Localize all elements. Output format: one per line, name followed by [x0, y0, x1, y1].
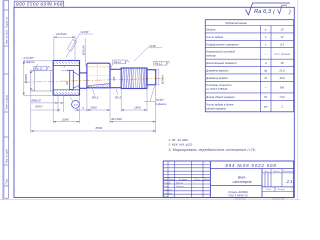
segment F (gear teeth section)	[121, 68, 147, 89]
svg-text:15,6: 15,6	[279, 76, 285, 80]
svg-text:): )	[288, 10, 291, 16]
B inner groove rect	[70, 70, 79, 89]
F teeth section: dense wavy strokes	[123, 68, 146, 88]
svg-text:Ø15,94: Ø15,94	[81, 45, 85, 56]
dim d15.94 vertical	[84, 38, 86, 67]
left vertical dim A (on face)	[30, 70, 32, 73]
svg-text:Масса: Масса	[273, 171, 280, 173]
centerline	[24, 78, 163, 82]
D keyway section hatch (sloped)	[88, 84, 110, 88]
svg-text:Число зубьев в длине: Число зубьев в длине	[206, 102, 234, 106]
svg-text:по ГОСТ 1758-81: по ГОСТ 1758-81	[206, 87, 228, 91]
B hatching top band	[54, 61, 79, 65]
title block	[163, 161, 293, 198]
svg-text:Ø2: Ø2	[65, 80, 69, 85]
svg-text:≈150: ≈150	[149, 44, 156, 48]
left section horizontals	[163, 163, 210, 165]
roughness mark top right	[246, 3, 292, 16]
svg-text:Разраб.: Разраб.	[164, 183, 172, 185]
svg-text:Модуль: Модуль	[206, 28, 216, 32]
svg-text:da: da	[264, 68, 267, 72]
svg-text:W: W	[264, 95, 267, 99]
svg-text:1:7: 1:7	[73, 103, 78, 107]
svg-text:3. Маркировать передаточное от: 3. Маркировать передаточное отношение i=…	[169, 148, 257, 152]
svg-text:68h6: 68h6	[96, 126, 103, 130]
svg-text:Делительный диаметр: Делительный диаметр	[205, 61, 237, 65]
svg-text:7,21: 7,21	[279, 95, 285, 99]
extension lines down	[31, 85, 156, 133]
svg-text:Т.контр.: Т.контр.	[164, 189, 173, 191]
balloon	[72, 101, 80, 109]
svg-text:Ra 6,3: Ra 6,3	[254, 9, 272, 15]
leader 1250	[66, 34, 93, 58]
svg-text:≈1250: ≈1250	[80, 30, 89, 34]
segment G (right journal)	[147, 70, 156, 85]
left vertical dim B	[24, 61, 53, 96]
svg-text:Утв.: Утв.	[164, 196, 169, 198]
svg-text:18: 18	[281, 61, 284, 65]
svg-text:Ra 12: Ra 12	[155, 62, 162, 66]
gear parameter table	[205, 20, 293, 112]
svg-text:ГОСТ 4543-71: ГОСТ 4543-71	[228, 194, 248, 198]
top-left designation box (rotated 180)	[14, 1, 64, 8]
svg-text:R0,5: R0,5	[92, 95, 99, 99]
segment D (cylinder with keyway section)	[87, 63, 110, 88]
svg-text:2. H14, h14, ±t2/2.: 2. H14, h14, ±t2/2.	[168, 143, 194, 147]
svg-text:Формат A4: Формат A4	[272, 198, 285, 200]
svg-text:85h7: 85h7	[36, 105, 43, 109]
svg-text:Ra 12: Ra 12	[35, 67, 43, 71]
title block texts	[225, 163, 292, 197]
svg-text:df: df	[265, 76, 267, 80]
svg-text:Подп.: Подп.	[194, 178, 200, 181]
svg-text:контур: контур	[206, 55, 216, 58]
svg-text:15: 15	[281, 28, 284, 32]
right vertical dim G	[158, 70, 160, 85]
svg-text:Диаметр впадин: Диаметр впадин	[205, 76, 228, 80]
left margin strip	[4, 1, 9, 199]
svg-text:Инв. № дубл.: Инв. № дубл.	[5, 148, 8, 163]
segment E (neck dia 8)	[110, 68, 121, 88]
svg-text:2 фаски: 2 фаски	[23, 60, 36, 64]
svg-text:Петров: Петров	[176, 186, 185, 188]
svg-text:Инв. № подл.: Инв. № подл.	[5, 29, 8, 44]
dim row y=117.5	[53, 121, 156, 123]
svg-text:Подп. и дата: Подп. и дата	[5, 94, 8, 110]
svg-text:Диаметр вершин: Диаметр вершин	[205, 68, 229, 72]
svg-text:46,2h10: 46,2h10	[111, 117, 122, 121]
svg-text:Длина общей нормали: Длина общей нормали	[205, 95, 235, 99]
svg-text:4 фаски: 4 фаски	[155, 102, 167, 106]
svg-text:Изм: Изм	[164, 179, 168, 181]
D second hidden line	[88, 75, 110, 77]
svg-text:R0,5: R0,5	[115, 95, 122, 99]
svg-text:15h6: 15h6	[90, 106, 97, 110]
Ra box on G	[154, 61, 170, 65]
svg-text:Ø16h9: Ø16h9	[160, 75, 164, 85]
D keyway hidden line (orange dash)	[88, 66, 110, 68]
overall dim y=124.5	[31, 130, 156, 132]
Ra box on A	[34, 66, 50, 70]
dim 2 (groove width)	[61, 69, 70, 71]
svg-text:9-В: 9-В	[280, 86, 284, 90]
svg-text:Число зубьев: Число зубьев	[206, 35, 223, 39]
svg-text:ГОСТ 13755-68: ГОСТ 13755-68	[274, 54, 290, 56]
svg-text:Листов: Листов	[276, 189, 285, 191]
Ra box on D	[111, 60, 129, 69]
B hatching bottom band	[54, 90, 79, 95]
svg-text:Ra 12: Ra 12	[114, 60, 121, 64]
left section verticals	[167, 161, 169, 198]
svg-text:Подп.: Подп.	[5, 178, 8, 185]
svg-text:№ докум.: № докум.	[178, 178, 188, 181]
svg-text:Дата: Дата	[203, 179, 210, 181]
segment A (left end, thin lines)	[31, 70, 53, 91]
leader 150 to gear	[134, 48, 162, 61]
svg-text:Лит.: Лит.	[263, 171, 269, 173]
svg-text:общей нормали: общей нормали	[206, 106, 226, 110]
groove dims under B	[31, 103, 64, 110]
svg-text:Пров.: Пров.	[164, 186, 170, 188]
svg-text:Нормальный исходный: Нормальный исходный	[206, 50, 235, 54]
chain dim row y=110	[75, 109, 148, 111]
svg-text:Справ. №: Справ. №	[5, 17, 8, 28]
svg-text:Ø8: Ø8	[112, 76, 116, 81]
svg-text:2: 2	[63, 64, 66, 68]
svg-text:2:1: 2:1	[286, 179, 293, 184]
svg-text:шестерня: шестерня	[232, 179, 251, 184]
svg-text:Коэффициент смещения: Коэффициент смещения	[206, 42, 239, 46]
svg-text:1. 38...42 HRC.: 1. 38...42 HRC.	[169, 138, 190, 142]
sheet right edge	[296, 0, 298, 200]
gear table text	[205, 21, 290, 110]
left margin rotated labels	[5, 17, 8, 185]
sheet bottom edge	[0, 198, 300, 200]
svg-text:16,5h12: 16,5h12	[56, 32, 67, 36]
svg-text:894 №09 0022 008: 894 №09 0022 008	[16, 1, 63, 7]
svg-text:21,6: 21,6	[278, 68, 285, 72]
svg-text:894 №09 0022 008: 894 №09 0022 008	[225, 163, 276, 168]
D vertical dash-dot	[97, 62, 99, 89]
svg-text:Лист: Лист	[168, 179, 175, 181]
technical notes	[168, 138, 257, 152]
svg-text:Иванов: Иванов	[176, 183, 184, 185]
svg-text:Н.контр.: Н.контр.	[164, 193, 173, 195]
svg-text:20h6: 20h6	[61, 118, 69, 122]
svg-text:Копировал: Копировал	[235, 199, 247, 200]
svg-text:1: 1	[291, 189, 292, 191]
svg-text:0,3: 0,3	[280, 42, 284, 46]
right section	[210, 168, 293, 170]
sheet left edge	[2, 0, 4, 200]
svg-text:Ø18h8: Ø18h8	[24, 74, 28, 84]
svg-text:Зубчатый венец: Зубчатый венец	[225, 21, 247, 25]
svg-text:Ø6h10: Ø6h10	[31, 98, 41, 102]
main frame	[14, 7, 294, 197]
svg-text:Степень точности: Степень точности	[206, 83, 232, 87]
dim 16.5 top	[54, 36, 75, 60]
segment B (large collar, sectioned)	[53, 61, 79, 96]
svg-text:15h6: 15h6	[134, 106, 141, 110]
svg-text:Лист: Лист	[265, 189, 272, 191]
svg-text:Масштаб: Масштаб	[283, 171, 294, 173]
segment C (neck groove)	[80, 73, 87, 88]
svg-text:12: 12	[281, 35, 284, 39]
